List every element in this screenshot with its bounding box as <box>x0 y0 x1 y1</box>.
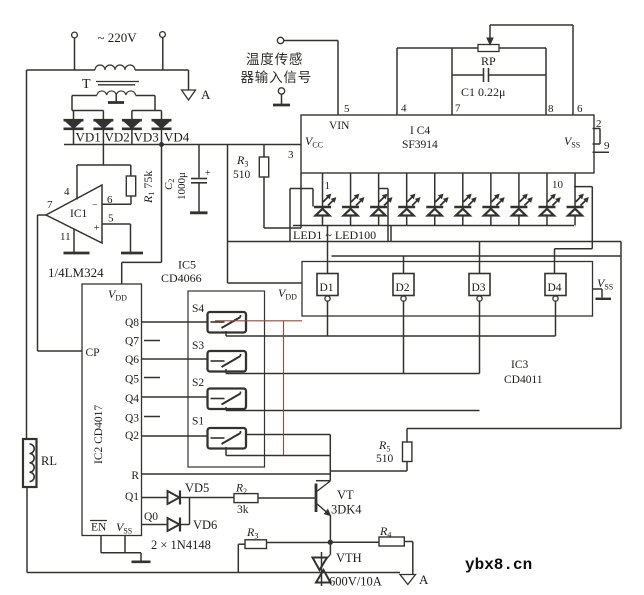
svg-text:Q3: Q3 <box>125 413 139 425</box>
svg-text:S4: S4 <box>192 303 204 315</box>
svg-text:ybx8.cn: ybx8.cn <box>465 556 532 574</box>
svg-text:T: T <box>82 77 91 92</box>
svg-text:IC1: IC1 <box>70 208 88 220</box>
svg-text:CD4066: CD4066 <box>161 271 202 285</box>
svg-text:Q5: Q5 <box>125 374 139 386</box>
svg-text:RL: RL <box>41 454 57 468</box>
svg-text:R1 75k: R1 75k <box>141 171 156 204</box>
svg-text:I C4: I C4 <box>410 125 430 137</box>
svg-text:−: − <box>92 200 98 211</box>
svg-text:Q8: Q8 <box>125 317 139 329</box>
svg-text:A: A <box>201 87 211 102</box>
svg-text:EN: EN <box>91 522 107 534</box>
svg-text:4: 4 <box>64 186 70 198</box>
svg-text:VD6: VD6 <box>193 518 217 532</box>
svg-text:~ 220V: ~ 220V <box>98 30 138 45</box>
svg-text:1: 1 <box>325 180 331 192</box>
svg-text:C1 0.22μ: C1 0.22μ <box>461 85 505 99</box>
svg-text:VD2: VD2 <box>105 130 130 145</box>
svg-text:Q4: Q4 <box>125 393 139 405</box>
svg-text:D4: D4 <box>548 282 562 294</box>
svg-text:8: 8 <box>548 103 554 115</box>
svg-text:6: 6 <box>577 103 583 115</box>
svg-text:Q2: Q2 <box>125 430 139 442</box>
svg-text:7: 7 <box>47 199 53 211</box>
svg-text:9: 9 <box>604 140 610 152</box>
svg-text:3k: 3k <box>237 504 249 516</box>
svg-text:D3: D3 <box>472 282 486 294</box>
svg-text:CD4011: CD4011 <box>504 374 543 386</box>
svg-text:LED1 ~ LED100: LED1 ~ LED100 <box>293 228 376 242</box>
svg-text:5: 5 <box>344 103 350 115</box>
svg-text:D2: D2 <box>396 282 410 294</box>
svg-text:VD1: VD1 <box>76 130 101 145</box>
svg-text:SF3914: SF3914 <box>402 139 438 151</box>
svg-text:IC5: IC5 <box>178 258 196 272</box>
svg-text:1000μ: 1000μ <box>176 172 188 200</box>
svg-text:Q0: Q0 <box>144 511 158 523</box>
svg-text:S1: S1 <box>192 416 204 428</box>
svg-text:10: 10 <box>552 179 564 191</box>
svg-text:5: 5 <box>108 213 114 225</box>
svg-text:11: 11 <box>60 231 71 243</box>
svg-text:Q6: Q6 <box>125 354 139 366</box>
svg-text:1/4LM324: 1/4LM324 <box>48 265 104 280</box>
svg-text:Q1: Q1 <box>125 491 139 503</box>
svg-text:Q7: Q7 <box>125 336 139 348</box>
svg-text:A: A <box>419 572 429 587</box>
svg-text:S2: S2 <box>192 377 204 389</box>
svg-text:510: 510 <box>233 169 251 181</box>
svg-text:VD4: VD4 <box>164 130 190 145</box>
svg-text:+: + <box>94 222 100 234</box>
svg-text:CP: CP <box>86 347 100 359</box>
svg-text:VD5: VD5 <box>185 481 209 495</box>
svg-text:IC2 CD4017: IC2 CD4017 <box>93 405 105 464</box>
svg-text:D1: D1 <box>320 282 334 294</box>
svg-text:RP: RP <box>481 54 496 68</box>
svg-text:600V/10A: 600V/10A <box>329 575 382 589</box>
svg-text:VTH: VTH <box>336 551 362 565</box>
svg-text:IC3: IC3 <box>511 359 529 371</box>
svg-text:VIN: VIN <box>329 120 350 132</box>
svg-text:3: 3 <box>288 149 294 161</box>
svg-text:3DK4: 3DK4 <box>331 503 362 517</box>
svg-text:S3: S3 <box>192 340 204 352</box>
svg-text:R: R <box>131 470 139 482</box>
svg-text:温度传感: 温度传感 <box>246 51 303 67</box>
svg-text:2 × 1N4148: 2 × 1N4148 <box>151 538 211 552</box>
svg-text:器输入信号: 器输入信号 <box>241 70 313 85</box>
svg-text:7: 7 <box>455 103 461 115</box>
svg-text:4: 4 <box>401 103 407 115</box>
svg-text:VT: VT <box>337 488 354 502</box>
svg-text:+: + <box>205 168 211 179</box>
svg-text:510: 510 <box>376 453 394 465</box>
svg-text:VD3: VD3 <box>134 130 159 145</box>
